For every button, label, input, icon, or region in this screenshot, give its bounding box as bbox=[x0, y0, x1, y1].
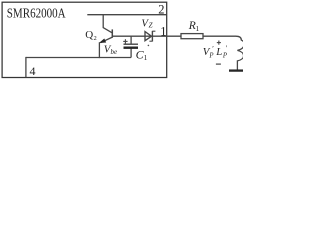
svg-text:be: be bbox=[111, 48, 118, 56]
svg-text:P: P bbox=[208, 52, 213, 59]
svg-text:P: P bbox=[222, 52, 227, 59]
svg-text:L: L bbox=[215, 46, 222, 58]
svg-text:1: 1 bbox=[144, 53, 148, 62]
svg-text:SMR62000A: SMR62000A bbox=[7, 6, 66, 21]
svg-text:2: 2 bbox=[158, 3, 164, 17]
svg-text:1: 1 bbox=[196, 24, 200, 33]
svg-text:Q: Q bbox=[85, 29, 93, 41]
svg-text:4: 4 bbox=[30, 64, 36, 78]
svg-text:1: 1 bbox=[160, 24, 166, 38]
svg-text:2: 2 bbox=[94, 35, 97, 42]
svg-text:Z: Z bbox=[149, 22, 153, 30]
